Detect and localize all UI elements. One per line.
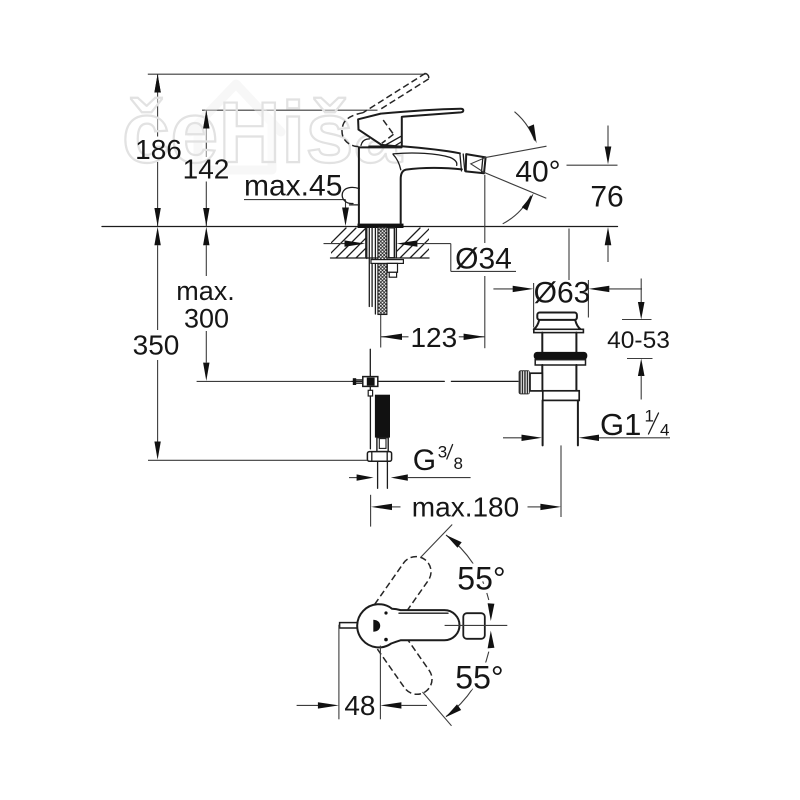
spray line upper <box>485 146 546 157</box>
mounting nut steps <box>387 263 397 272</box>
pull rod guide sleeve in hole <box>389 228 395 258</box>
svg-text:40°: 40° <box>515 156 560 189</box>
dimension max.300 bottom reference line merging into lifting rod <box>197 380 352 382</box>
rubber gasket <box>534 352 588 360</box>
dimension max.180 <box>370 495 372 527</box>
lower 55deg arc <box>446 652 489 717</box>
svg-text:142: 142 <box>183 154 230 185</box>
head and handle merged outline (top view) <box>357 604 459 647</box>
svg-text:1: 1 <box>645 407 654 426</box>
dimension diameter 34 arrow line left <box>324 243 346 245</box>
index dots <box>384 611 387 614</box>
dimension max.300 vertical line <box>205 245 207 276</box>
dimension 142 extension line <box>202 109 378 111</box>
dashed handle swung up 55 degrees <box>375 551 437 622</box>
deck hatching left of hole <box>316 228 386 258</box>
dimension 350 arrows <box>154 227 160 245</box>
svg-text:186: 186 <box>135 134 182 165</box>
spray cone wedge <box>471 158 485 173</box>
lower arc bottom arrowhead <box>446 704 462 717</box>
dimension arrowheads repainted over watermark <box>154 74 160 92</box>
upper arc arrowhead <box>528 124 537 143</box>
svg-text:max.: max. <box>176 276 235 306</box>
handle/body shadow gap <box>369 145 401 147</box>
deck reference line <box>102 226 618 228</box>
svg-text:40-53: 40-53 <box>607 327 670 354</box>
dimension max.300 arrows <box>203 227 209 245</box>
deck hole left edge <box>365 227 367 258</box>
lower 55deg radius line <box>423 692 452 726</box>
dashed handle swung down 55 degrees <box>376 629 438 700</box>
pop-up waste cap <box>537 313 577 320</box>
dimension 76 lower arrow <box>605 227 612 245</box>
threaded mounting stud <box>378 227 387 314</box>
svg-text:3: 3 <box>438 443 447 462</box>
spray axis reference line <box>567 164 618 166</box>
svg-text:Ø63: Ø63 <box>534 277 591 310</box>
pop-up rod thin lower part <box>369 396 371 449</box>
dimension 186 vertical line <box>157 74 159 136</box>
svg-text:55°: 55° <box>457 561 505 597</box>
dimension G1 1/4 <box>503 437 522 439</box>
deck hatching right of hole <box>390 228 450 258</box>
waste body upper <box>541 333 543 352</box>
upper arc top arrowhead <box>446 535 462 548</box>
waste flange <box>534 329 584 332</box>
waste lower nut <box>543 391 579 401</box>
svg-text:G1: G1 <box>600 407 641 442</box>
dimension 186 arrows <box>154 74 160 92</box>
svg-text:350: 350 <box>133 330 180 361</box>
supply hose black section <box>375 395 390 438</box>
mounting washer under deck <box>371 260 403 264</box>
svg-text:8: 8 <box>454 454 463 473</box>
drain center extension line up to deck <box>568 229 570 281</box>
handle end cap (top view) <box>463 613 485 639</box>
svg-text:48: 48 <box>344 690 375 721</box>
handle inner line (top view) <box>399 612 448 614</box>
svg-text:4: 4 <box>660 421 669 440</box>
spray line lower <box>484 172 546 198</box>
svg-text:max.180: max.180 <box>412 492 519 523</box>
cartridge dome arc under handle <box>361 139 369 146</box>
dimension 40-53 <box>622 319 652 321</box>
40-degree spray angle arc lower <box>503 196 531 224</box>
waste funnel flares <box>534 320 581 329</box>
supply tube lines in deck hole <box>366 228 368 259</box>
deck section bottom line <box>331 257 430 259</box>
hose crimp connector <box>377 438 388 452</box>
svg-text:55°: 55° <box>455 660 503 696</box>
dimension diameter 63 <box>493 288 513 290</box>
dimension diameter 34 arrow right <box>397 240 418 246</box>
washer under gasket <box>535 360 585 365</box>
upper 55deg radius line <box>421 525 453 558</box>
dashed blade tip <box>425 73 428 79</box>
faucet spout top edge <box>402 146 460 153</box>
spout / aerator seam lines <box>460 154 462 171</box>
spout inner contour curves <box>393 153 457 165</box>
upper 55deg arc <box>446 535 489 600</box>
svg-text:300: 300 <box>184 304 229 334</box>
dimension 142 vertical line <box>205 110 207 157</box>
dimension 76 upper arrow <box>607 126 609 148</box>
svg-text:G: G <box>413 444 436 477</box>
dimension 123 line and arrows <box>381 336 409 338</box>
max.45 leader arrow <box>342 208 349 227</box>
drain center line below pipe <box>560 445 562 517</box>
waste body lower <box>541 365 543 391</box>
dashed base corner segments <box>383 120 393 134</box>
horizontal lifting rod segments <box>352 380 444 382</box>
svg-text:76: 76 <box>590 181 623 214</box>
aerator body <box>466 154 486 173</box>
rod side port <box>530 373 542 391</box>
waste tailpipe <box>542 400 544 445</box>
lower arc arrowhead <box>522 193 534 210</box>
rod clamp block <box>363 377 378 387</box>
svg-text:Ø34: Ø34 <box>455 243 512 276</box>
G3/8 hose nut <box>367 452 391 462</box>
rod clamp screw <box>353 378 356 385</box>
handle lever (side view) <box>358 109 463 147</box>
svg-text:čeHiša: čeHiša <box>122 85 403 181</box>
hose end pipe <box>377 461 379 488</box>
dimension 123 right extension line (from aerator) <box>484 175 486 243</box>
dimension 48 <box>338 625 340 720</box>
center line through end cap <box>445 624 508 626</box>
cartridge D mark <box>373 620 380 632</box>
aerator nub (top view) <box>340 623 358 628</box>
dimension 350 vertical line <box>157 245 159 330</box>
upper arc bottom arrowhead <box>488 603 495 621</box>
clamp hook on body left edge <box>342 187 359 203</box>
watermark house icon <box>190 84 281 170</box>
knurled adjuster knob <box>519 370 530 394</box>
svg-text:123: 123 <box>410 322 457 353</box>
dashed base rounded left end <box>342 113 363 147</box>
dashed blade lower edge <box>380 79 429 110</box>
dashed handle raised position: blade upper edge <box>363 73 425 112</box>
deck hole right edge <box>395 227 397 258</box>
lower arc top arrowhead <box>488 631 495 649</box>
dimension G3/8 arrows <box>349 477 357 479</box>
pop-up rod vertical <box>369 349 371 390</box>
faucet base plate on deck <box>358 224 404 228</box>
pop-up rod end coupler <box>368 390 372 396</box>
dimension 142 arrows <box>203 110 209 128</box>
dimension 186 top extension line <box>148 73 426 75</box>
dimension 350 bottom reference line <box>148 459 368 461</box>
diameter 34 leader step <box>450 244 452 272</box>
40-degree spray angle arc upper <box>515 112 535 141</box>
faucet body outline <box>359 147 462 223</box>
handle inner crease lines <box>382 136 401 147</box>
dimension 123 left extension line <box>380 315 382 348</box>
aerator inner face line <box>481 157 483 173</box>
